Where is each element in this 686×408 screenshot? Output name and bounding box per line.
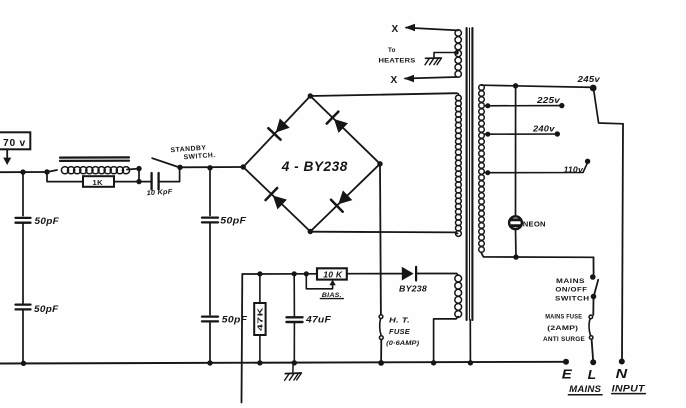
- svg-text:240v: 240v: [532, 124, 556, 134]
- wire C2 to ground bus: [22, 309, 24, 363]
- svg-text:H. T.: H. T.: [389, 316, 410, 325]
- wire bridge edge bottom-right: [310, 164, 380, 232]
- diode D1 bridge upper-left: [276, 118, 290, 132]
- wire bias feed down: [241, 274, 244, 403]
- node bus junction 47K: [257, 360, 262, 365]
- wire HT fuse to bus: [380, 340, 382, 363]
- arrow X heater bottom: [404, 75, 414, 82]
- node 70V input label box: [0, 132, 30, 149]
- wire ground bus: [0, 362, 566, 364]
- node junction neon top: [513, 83, 518, 88]
- wire main HT input: [0, 171, 47, 173]
- diode D3 bridge lower-left: [273, 196, 287, 210]
- node bus junction bias winding: [431, 360, 436, 365]
- node junction cap 47uF top: [292, 271, 297, 276]
- svg-text:50pF: 50pF: [220, 216, 246, 227]
- diode D4 bridge lower-right: [338, 190, 352, 204]
- wire bridge right vertex down: [379, 164, 382, 315]
- node bridge top vertex: [308, 93, 313, 98]
- svg-text:4 - BY238: 4 - BY238: [281, 158, 348, 174]
- svg-text:SWITCH: SWITCH: [555, 296, 590, 303]
- wire tap 225V: [485, 105, 562, 107]
- node bridge left vertex: [241, 164, 246, 169]
- svg-text:(0·6AMP): (0·6AMP): [386, 340, 419, 347]
- potentiometer wiper arrow: [329, 280, 335, 285]
- neon lamp: [509, 216, 522, 229]
- svg-text:E: E: [562, 367, 572, 382]
- wire 1K branch left: [47, 172, 83, 182]
- wire heater top lead: [406, 28, 458, 31]
- svg-text:BIAS.: BIAS.: [322, 292, 342, 299]
- wire fuse to L terminal: [592, 339, 594, 361]
- winding secondary right: [479, 85, 485, 91]
- svg-text:10 K: 10 K: [323, 270, 343, 279]
- svg-text:47K: 47K: [257, 307, 264, 331]
- node bus junction HT fuse: [378, 360, 384, 366]
- mains on/off switch blade: [594, 280, 598, 296]
- capacitor C5 50pF: [202, 315, 218, 317]
- svg-text:HEATERS: HEATERS: [379, 57, 416, 64]
- node standby switch pivot: [177, 165, 182, 170]
- wire switch to bridge: [180, 166, 243, 168]
- wire bias winding to bus: [434, 317, 459, 363]
- wire 47K lead: [259, 274, 261, 303]
- svg-text:47uF: 47uF: [305, 314, 331, 324]
- node junction L/R parallel left: [44, 169, 49, 174]
- wire 47uF lead: [293, 274, 295, 316]
- node bus junction 47uF: [292, 360, 297, 365]
- wire cap to switch node: [159, 168, 180, 182]
- node mains switch bottom: [591, 294, 597, 300]
- svg-text:50pF: 50pF: [34, 304, 59, 315]
- wire tap 110V: [485, 163, 588, 173]
- node junction left cap column: [20, 169, 25, 174]
- node tap 110V: [485, 170, 490, 175]
- wire heater bottom lead: [405, 77, 457, 79]
- capacitor C2 50pF: [16, 303, 31, 305]
- node tap 225V: [485, 103, 490, 108]
- wire to coupling cap: [139, 181, 151, 183]
- node junction pot wiper loop: [304, 271, 309, 276]
- wire bridge top to primary: [310, 93, 457, 96]
- wire heater CT to ground: [434, 53, 457, 58]
- resistor R1 1K: [83, 176, 114, 187]
- wire 47uF to bus: [293, 322, 295, 363]
- transformer core: [466, 28, 468, 320]
- svg-text:MAINS: MAINS: [569, 384, 601, 395]
- svg-text:110v: 110v: [564, 164, 585, 174]
- wire bridge edge left-top: [243, 96, 310, 167]
- svg-text:MAINS: MAINS: [556, 278, 585, 285]
- node heater centre tap: [454, 50, 459, 55]
- node bridge bottom vertex: [308, 229, 313, 234]
- svg-text:N: N: [616, 366, 628, 381]
- wire tap 240V: [485, 133, 558, 135]
- wire diode to bias winding: [416, 273, 457, 275]
- capacitor C1 50pF: [16, 217, 31, 219]
- wire neon top: [515, 86, 517, 216]
- wire between C1 and C2: [22, 223, 24, 303]
- wire bridge edge top-right: [310, 96, 380, 164]
- svg-text:50pF: 50pF: [35, 216, 60, 227]
- node terminal E: [563, 359, 569, 365]
- wire N line vertical: [622, 124, 623, 361]
- resistor R2 47K: [254, 303, 265, 335]
- node bus junction mid caps: [207, 360, 212, 365]
- svg-text:10 KpF: 10 KpF: [146, 188, 173, 197]
- inductor core bars: [60, 156, 129, 158]
- svg-text:FUSE: FUSE: [389, 327, 410, 336]
- svg-text:INPUT: INPUT: [612, 383, 646, 394]
- capacitor C6 47uF: [287, 316, 303, 318]
- node tap 240V: [485, 132, 490, 137]
- potentiometer wiper loop: [306, 274, 332, 289]
- svg-text:ON/OFF: ON/OFF: [555, 287, 587, 294]
- winding primary left: [456, 95, 462, 101]
- node bus junction left caps: [21, 361, 26, 366]
- mains fuse 2A: [589, 315, 593, 319]
- wire 1K branch right: [114, 181, 139, 183]
- svg-text:MAINS FUSE: MAINS FUSE: [545, 315, 582, 321]
- svg-text:50pF: 50pF: [222, 315, 248, 326]
- wire neon bottom: [515, 229, 518, 257]
- wire 47K to bus: [259, 335, 261, 363]
- node junction coil right bottom: [136, 179, 141, 184]
- winding heater: [455, 30, 461, 36]
- diode D5 BY238: [402, 267, 414, 281]
- wire pot to diode: [347, 273, 402, 275]
- wire bridge edge bottom-left: [243, 167, 310, 232]
- wire mid cap column upper: [209, 168, 211, 216]
- node junction 47K top: [257, 271, 262, 276]
- potentiometer R3 10K: [317, 268, 347, 279]
- svg-text:225v: 225v: [536, 95, 561, 105]
- svg-text:70 v: 70 v: [3, 137, 26, 149]
- node junction mid cap column: [207, 165, 212, 170]
- svg-text:1K: 1K: [93, 178, 104, 187]
- node terminal N: [619, 359, 625, 365]
- node bridge right vertex: [377, 161, 382, 166]
- node junction coil right top: [136, 166, 141, 171]
- HT fuse: [379, 315, 383, 319]
- node terminal 110V: [585, 159, 590, 164]
- node junction neon bottom: [513, 254, 518, 259]
- capacitor C3 10KpF: [150, 173, 152, 190]
- svg-text:BY238: BY238: [399, 285, 427, 294]
- svg-text:L: L: [588, 367, 597, 382]
- wire secondary bottom lead: [481, 253, 593, 257]
- node terminal L: [590, 359, 596, 365]
- inductor L1 choke coil: [47, 170, 57, 172]
- svg-text:NEON: NEON: [523, 221, 546, 228]
- wire selector 245V to N line: [594, 90, 623, 124]
- wire parallel join: [138, 169, 140, 182]
- wire secondary top lead: [481, 85, 594, 87]
- svg-text:245v: 245v: [577, 74, 602, 84]
- wire secondary common down: [593, 257, 595, 277]
- standby switch blade: [152, 158, 178, 167]
- wire primary bottom to bridge bottom: [310, 232, 457, 234]
- node terminal 245V: [590, 85, 597, 92]
- wire switch to fuse: [592, 297, 594, 315]
- node mains switch top: [590, 274, 596, 280]
- ground main bus: [292, 363, 294, 372]
- diode D2 bridge upper-right: [334, 119, 348, 133]
- winding bias lower-left: [455, 275, 462, 282]
- svg-text:ANTI SURGE: ANTI SURGE: [543, 337, 585, 343]
- node terminal 225V: [559, 103, 564, 108]
- wire left cap column upper: [22, 172, 24, 216]
- wire between C4 and C5: [209, 222, 211, 314]
- svg-text:(2AMP): (2AMP): [547, 325, 578, 332]
- svg-text:X: X: [391, 75, 398, 86]
- svg-text:To: To: [388, 47, 396, 54]
- wire bias row: [242, 273, 317, 275]
- capacitor C4 50pF: [202, 216, 218, 218]
- wire core earth: [469, 320, 471, 363]
- svg-text:SWITCH.: SWITCH.: [183, 152, 216, 161]
- arrow X heater top: [405, 24, 415, 31]
- wire C5 to ground bus: [209, 321, 211, 363]
- node bus junction core earth: [468, 360, 473, 365]
- node terminal 240V: [555, 131, 560, 136]
- ground heater centre tap: [426, 57, 441, 59]
- svg-text:X: X: [392, 24, 399, 35]
